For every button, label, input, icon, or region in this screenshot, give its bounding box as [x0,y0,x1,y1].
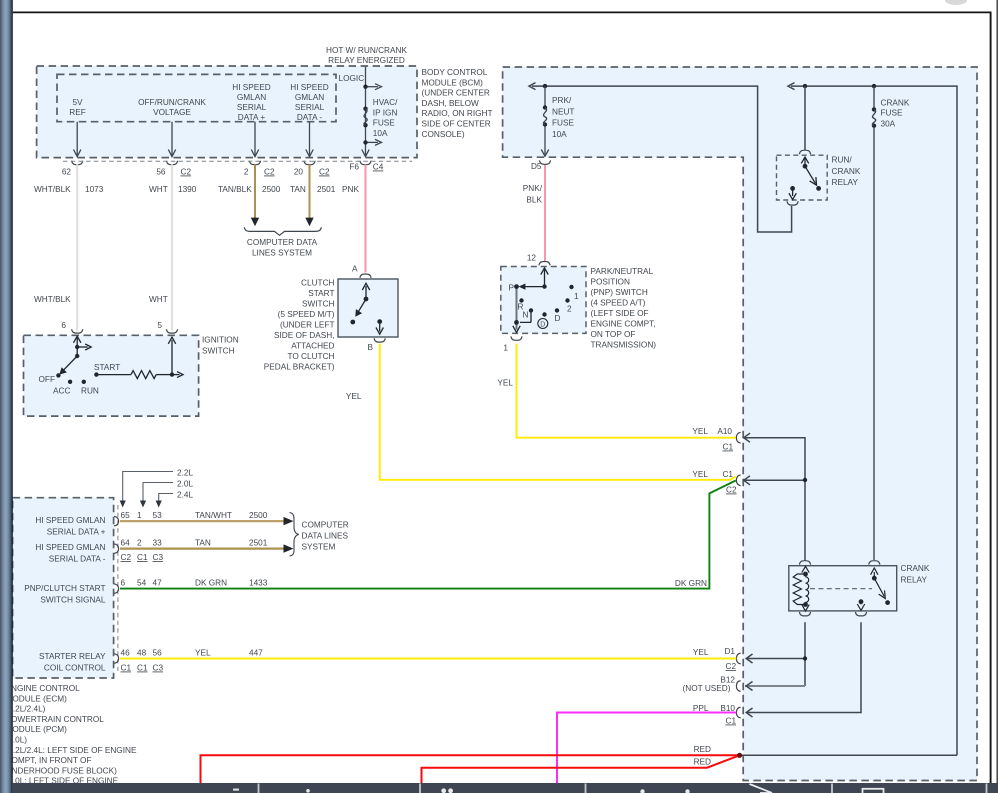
page border top line [13,11,992,13]
svg-text:SWITCH: SWITCH [202,346,235,355]
wire feed line right segment (hot from crank fuse line) [788,83,957,756]
run/crank relay box [777,155,828,200]
svg-text:HI SPEED GMLAN: HI SPEED GMLAN [35,516,105,525]
node prk/neut fuse tap [543,84,547,88]
wire red feed into block [740,754,957,756]
svg-text:30A: 30A [881,120,896,129]
label R [518,303,524,312]
svg-text:1390: 1390 [178,185,197,194]
node PNP common top [542,284,546,288]
connector ECM row4 [114,654,119,664]
connector PNP pin 1 [503,336,522,352]
svg-text:ACC: ACC [53,387,70,396]
svg-text:48: 48 [137,649,147,658]
svg-text:(LEFT SIDE OF: (LEFT SIDE OF [591,309,649,318]
svg-text:33: 33 [153,539,163,548]
svg-text:COMPUTER: COMPUTER [302,521,349,530]
scrollbar blob top right [945,0,967,5]
ECM box [13,498,114,678]
svg-text:TAN: TAN [290,185,306,194]
svg-text:56: 56 [153,649,163,658]
svg-text:(PNP) SWITCH: (PNP) SWITCH [591,288,648,297]
connector clutch pin A [360,274,371,278]
svg-text:C2: C2 [726,662,737,671]
label C1 C1 C3 row4 [121,664,164,673]
brace computer data lines [244,227,321,235]
label RED labels [694,745,711,767]
svg-text:SWITCH: SWITCH [302,300,335,309]
svg-text:UNDERHOOD FUSE BLOCK): UNDERHOOD FUSE BLOCK) [6,766,118,775]
wire feed line left segment (from run/crank relay output) [529,83,792,232]
wire DK GRN 1433 [120,481,736,589]
svg-text:62: 62 [62,168,72,177]
svg-text:HVAC/: HVAC/ [373,98,398,107]
node ign pivot [75,354,79,358]
svg-text:SERIAL: SERIAL [295,103,325,112]
svg-text:C1: C1 [722,470,733,479]
svg-text:SERIAL DATA -: SERIAL DATA - [49,554,106,563]
svg-text:D5: D5 [531,162,542,171]
svg-text:47: 47 [153,579,163,588]
label HI SPEED GMLAN SERIAL DATA + [232,83,271,122]
svg-text:C1: C1 [723,443,734,452]
label pins 64 2 33 [121,539,163,548]
node crank fuse tap [872,84,876,88]
svg-text:C1: C1 [726,717,737,726]
node ign common [75,345,79,349]
svg-text:BLK: BLK [526,195,542,204]
svg-text:A: A [352,265,358,274]
svg-text:D: D [555,314,561,323]
svg-text:C1: C1 [121,664,132,673]
svg-text:(UNDER LEFT: (UNDER LEFT [280,321,335,330]
svg-text:COIL CONTROL: COIL CONTROL [44,663,106,672]
svg-text:WHT/BLK: WHT/BLK [34,185,71,194]
connector face line under BCM [63,160,412,162]
node 2 [565,298,569,302]
svg-text:C3: C3 [153,664,164,673]
svg-text:(2.2L/2.4L: LEFT SIDE OF ENGIN: (2.2L/2.4L: LEFT SIDE OF ENGINE [6,746,137,755]
callout 2.0L [140,480,194,508]
connector pin F6 C4 [349,161,383,172]
node clutch pin B contact [377,319,382,324]
wire C1 arrow line to coil drop [743,476,805,485]
label pins 6 54 47 [121,579,163,588]
node ACC [68,380,72,384]
node RUN [82,380,86,384]
svg-text:DASH, BELOW: DASH, BELOW [422,99,480,108]
page border right line [990,12,992,783]
node coil low junction [803,656,807,660]
brace computer data lines (ECM) [290,513,299,557]
PNP switch box [501,267,586,334]
svg-text:PRK/: PRK/ [552,96,572,105]
svg-text:C2: C2 [264,168,275,177]
svg-text:POSITION: POSITION [591,278,630,287]
svg-text:RELAY: RELAY [901,575,928,584]
svg-text:POWERTRAIN CONTROL: POWERTRAIN CONTROL [6,715,105,724]
label OFF [39,375,56,384]
node N [529,308,533,312]
fuse HVAC/IP IGN 10A [363,98,398,138]
svg-text:YEL: YEL [346,392,362,401]
wire A10 arrow line to crank relay coil [743,433,805,560]
crank relay box [789,566,897,611]
wire PPL [557,713,736,784]
label circled D [538,319,548,329]
svg-text:CRANK: CRANK [901,564,930,573]
label LOGIC [339,74,365,83]
BCM logic inner box [57,74,336,121]
svg-text:C4: C4 [373,163,384,172]
underhood fuse block (big L-shaped dashed box) [503,67,977,781]
wire BCM logic ign feed [362,67,382,157]
svg-text:YEL: YEL [195,649,211,658]
svg-text:RELAY: RELAY [832,178,859,187]
svg-text:IGNITION: IGNITION [202,335,239,344]
svg-text:(5 SPEED M/T): (5 SPEED M/T) [278,310,335,319]
svg-text:YEL: YEL [497,379,513,388]
svg-text:DATA +: DATA + [238,113,266,122]
svg-text:D1: D1 [724,647,735,656]
connector ECM row3 [114,584,119,594]
svg-text:MODULE (PCM): MODULE (PCM) [6,725,68,734]
svg-text:CLUTCH: CLUTCH [301,279,335,288]
clutch start switch box [338,279,398,337]
svg-text:F6: F6 [349,163,359,172]
svg-text:NEUT: NEUT [552,107,574,116]
svg-text:RELAY ENERGIZED: RELAY ENERGIZED [328,56,405,65]
toolbar icon fragments [233,788,690,793]
svg-text:SWITCH SIGNAL: SWITCH SIGNAL [40,595,106,604]
svg-text:WHT: WHT [149,185,168,194]
resistor ignition key resistor [96,337,183,379]
svg-text:2.4L: 2.4L [177,491,193,500]
svg-text:TAN/BLK: TAN/BLK [218,185,252,194]
connector B10 [693,704,741,725]
svg-text:CONSOLE): CONSOLE) [422,130,465,139]
label 2 [567,305,572,314]
node ign resistor junction [170,372,174,376]
svg-text:TO CLUTCH: TO CLUTCH [287,352,334,361]
svg-text:GMLAN: GMLAN [237,93,266,102]
window far right edge [996,0,998,793]
label RUN [81,387,99,396]
node P [514,284,519,289]
label D [555,314,561,323]
connector pin 56 C2 [156,161,191,177]
svg-text:A10: A10 [717,427,732,436]
wire run/crank relay input drop [804,86,806,150]
wire BCM pin2 internal arrow [251,122,258,157]
node D [555,308,559,312]
svg-text:N: N [523,311,529,320]
node red junction [737,753,742,758]
svg-text:CRANK: CRANK [881,98,910,107]
svg-text:PNP/CLUTCH START: PNP/CLUTCH START [24,584,105,593]
node D-circle position [542,312,546,316]
svg-text:ON TOP OF: ON TOP OF [591,330,636,339]
label pins 65 1 53 [121,511,163,520]
label CLUTCH START SWITCH note [264,279,335,372]
svg-text:OFF: OFF [39,375,56,384]
label COMPUTER DATA LINES SYSTEM (ECM) [302,521,349,552]
label N [523,311,529,320]
connector D1 [693,647,741,671]
label 1 [574,292,579,301]
callout 2.4L [156,491,194,508]
svg-text:MODULE (ECM): MODULE (ECM) [6,694,68,703]
svg-text:DK GRN: DK GRN [675,579,707,588]
svg-text:HOT W/ RUN/CRANK: HOT W/ RUN/CRANK [326,46,407,55]
svg-text:54: 54 [137,579,147,588]
svg-text:YEL: YEL [692,427,708,436]
svg-text:START: START [94,363,120,372]
wire TAN 2501 [290,165,336,227]
body control module BCM box [37,66,417,158]
node OFF [56,373,60,377]
svg-text:TAN: TAN [195,539,211,548]
svg-text:SERIAL DATA +: SERIAL DATA + [47,527,106,536]
node START [94,372,98,376]
svg-text:6: 6 [121,579,126,588]
connector pin 20 C2 [294,161,330,177]
label A [352,265,358,274]
wire TAN/WHT 2500 [120,511,294,525]
label START [94,363,120,372]
svg-text:C3: C3 [153,553,164,562]
svg-text:OFF/RUN/CRANK: OFF/RUN/CRANK [138,98,206,107]
svg-text:64: 64 [121,539,131,548]
svg-text:447: 447 [249,649,263,658]
ignition switch box [24,335,199,416]
svg-text:2: 2 [137,539,142,548]
node logic tap 1 [363,85,367,89]
label 5V REF [69,98,86,117]
svg-text:C2: C2 [726,486,737,495]
svg-text:RUN: RUN [81,387,99,396]
svg-text:1: 1 [574,292,579,301]
svg-text:TRANSMISSION): TRANSMISSION) [591,341,657,350]
svg-text:PARK/NEUTRAL: PARK/NEUTRAL [591,267,654,276]
svg-text:D: D [540,322,545,329]
svg-text:C2: C2 [319,168,330,177]
svg-text:HI SPEED GMLAN: HI SPEED GMLAN [35,543,105,552]
svg-text:TAN/WHT: TAN/WHT [195,511,232,520]
svg-text:SIDE OF DASH,: SIDE OF DASH, [274,331,335,340]
clutch switch contacts [355,283,383,334]
svg-text:CRANK: CRANK [832,167,861,176]
wire YEL PNP pin1 to fuse block A10 [497,344,736,438]
ignition switch contacts [59,336,91,375]
connector clutch pin B [374,338,385,342]
label COMPUTER DATA LINES SYSTEM (top) [247,238,318,258]
wire BCM pin20 internal arrow [306,122,313,157]
svg-text:6: 6 [61,321,66,330]
node coil drop / C1 junction [803,478,807,482]
callout 2.2L [120,469,194,508]
svg-text:DATA LINES: DATA LINES [302,532,349,541]
node R [519,298,523,302]
svg-text:GMLAN: GMLAN [295,93,324,102]
svg-text:LINES SYSTEM: LINES SYSTEM [252,249,312,258]
wire YEL 447 starter relay coil control [120,649,736,659]
svg-text:(UNDER CENTER: (UNDER CENTER [422,89,490,98]
label PNP/CLUTCH START SWITCH SIGNAL [24,584,106,604]
svg-text:PNK: PNK [342,185,359,194]
connector pin 62 [62,161,83,177]
wire WHT/BLK 1073 [34,164,104,330]
svg-text:RED: RED [694,745,711,754]
connector ign pin 6 [61,321,82,333]
svg-text:P: P [509,284,515,293]
fuse CRANK 30A [872,86,910,560]
label OFF/RUN/CRANK VOLTAGE [138,98,206,117]
label PARK/NEUTRAL POSITION (PNP) SWITCH note [591,267,657,350]
svg-text:HI SPEED: HI SPEED [232,83,271,92]
label B [368,343,374,352]
node logic tap 2 [363,140,367,144]
svg-text:2: 2 [567,305,572,314]
svg-text:1: 1 [137,511,142,520]
wire crank relay coil low side to D1 and B12 [746,622,805,686]
connector pin 2 C2 [244,161,275,177]
label P [509,284,515,293]
svg-text:SYSTEM: SYSTEM [302,543,336,552]
svg-text:DK GRN: DK GRN [195,579,227,588]
svg-text:YEL: YEL [693,648,709,657]
wire PNK [342,165,366,273]
wire TAN/BLK 2500 [218,165,281,227]
svg-text:1433: 1433 [249,579,268,588]
svg-text:ENGINE COMPT,: ENGINE COMPT, [591,320,656,329]
wire RED 1 [201,755,740,783]
label BODY CONTROL MODULE (BCM) note [422,68,493,139]
wire RED 2 [422,755,740,783]
svg-text:START: START [308,289,334,298]
svg-text:DATA -: DATA - [297,113,323,122]
wire PNK/BLK from fuse block D5 [523,165,545,262]
PNP internal wiring [520,268,548,323]
relay CRANK internals [793,561,930,616]
svg-text:2501: 2501 [317,185,336,194]
svg-text:SIDE OF CENTER: SIDE OF CENTER [422,120,491,129]
connector ign pin 5 [157,321,177,333]
svg-text:BODY CONTROL: BODY CONTROL [422,68,488,77]
svg-text:WHT/BLK: WHT/BLK [34,295,71,304]
svg-text:65: 65 [121,511,131,520]
wire WHT 1390 [149,164,197,330]
svg-text:STARTER RELAY: STARTER RELAY [39,652,106,661]
svg-text:53: 53 [153,511,163,520]
svg-text:FUSE: FUSE [373,119,396,128]
svg-text:REF: REF [69,108,86,117]
svg-text:10A: 10A [552,130,567,139]
fuse PRK/NEUT 10A [541,86,574,156]
svg-text:(4 SPEED A/T): (4 SPEED A/T) [591,299,646,308]
svg-text:2: 2 [244,168,249,177]
node clutch fixed contact [350,320,355,325]
svg-text:PNK/: PNK/ [523,184,543,193]
svg-text:2500: 2500 [262,185,281,194]
svg-text:IP IGN: IP IGN [373,108,398,117]
svg-text:1: 1 [503,344,508,353]
svg-text:VOLTAGE: VOLTAGE [153,108,191,117]
connector face line right of ECM [117,505,119,671]
svg-text:2.0L: 2.0L [177,480,193,489]
svg-text:RADIO, ON RIGHT: RADIO, ON RIGHT [422,109,493,118]
node run/crank relay feed tap [803,84,807,88]
svg-text:2501: 2501 [249,539,268,548]
node clutch moving contact [364,297,369,302]
svg-text:2.2L: 2.2L [177,469,193,478]
svg-text:46: 46 [121,649,131,658]
left window edge strip [0,0,13,793]
connector ECM row1 [114,516,119,526]
svg-text:ATTACHED: ATTACHED [291,342,334,351]
svg-text:(NOT USED): (NOT USED) [683,684,731,693]
connector D5 [531,160,551,171]
svg-text:YEL: YEL [692,470,708,479]
connector ECM row2 [114,544,119,554]
svg-text:1073: 1073 [85,185,104,194]
svg-text:FUSE: FUSE [881,109,904,118]
svg-text:RED: RED [694,758,711,767]
wire BCM pin56 internal arrow [168,122,175,157]
connector A10 on fuse block [692,427,740,452]
svg-text:C2: C2 [121,553,132,562]
svg-text:10A: 10A [373,129,388,138]
wire BCM pin62 internal arrow [74,122,81,157]
svg-text:COMPUTER DATA: COMPUTER DATA [247,238,318,247]
svg-text:C1: C1 [137,664,148,673]
label HOT W/ RUN/CRANK RELAY ENERGIZED [326,46,407,65]
label HI SPEED GMLAN SERIAL DATA - (ECM) [35,543,105,563]
label HI SPEED GMLAN SERIAL DATA - [290,83,329,122]
svg-text:HI SPEED: HI SPEED [290,83,329,92]
svg-text:12: 12 [527,254,537,263]
svg-text:5: 5 [157,321,162,330]
svg-text:COMPT, IN FRONT OF: COMPT, IN FRONT OF [6,756,92,765]
relay RUN/CRANK internals [787,150,861,205]
label C2 C1 C3 row2 [121,553,164,562]
wire TAN 2501 [120,539,294,553]
bottom toolbar [13,783,998,793]
connector B12 (NOT USED) [683,676,741,693]
node 1 [569,285,573,289]
wire crank relay switch out to B10 [746,622,861,717]
label IGNITION SWITCH [202,335,239,355]
svg-text:FUSE: FUSE [552,119,575,128]
label HI SPEED GMLAN SERIAL DATA + (ECM) [35,516,105,536]
svg-text:C2: C2 [181,168,192,177]
ECM/PCM location note text (clipped by left strip) [6,684,137,786]
wire YEL clutch B to fuse block C1 [346,344,736,480]
svg-text:2500: 2500 [249,511,268,520]
svg-text:20: 20 [294,168,304,177]
connector C1 (yel/grn) on fuse block [692,470,740,495]
label STARTER RELAY COIL CONTROL [39,652,106,672]
svg-text:B: B [368,343,374,352]
svg-text:C1: C1 [137,553,148,562]
svg-text:SERIAL: SERIAL [237,103,267,112]
svg-text:RUN/: RUN/ [832,156,853,165]
label pins 46 48 56 [121,649,163,658]
svg-text:LOGIC: LOGIC [339,74,365,83]
svg-text:ENGINE CONTROL: ENGINE CONTROL [6,684,81,693]
svg-text:MODULE (BCM): MODULE (BCM) [422,78,484,87]
connector PNP pin 12 [527,254,550,266]
